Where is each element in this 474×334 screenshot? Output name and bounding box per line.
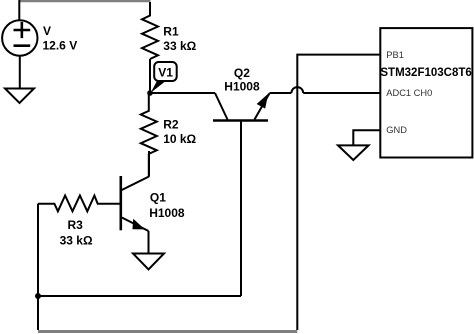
ground (below Q1) <box>133 254 164 270</box>
resistor R1 <box>142 2 158 59</box>
ground (below V source) <box>5 89 34 104</box>
wire hop over PB1 line <box>291 87 303 93</box>
wire R1 bottom to node V1 <box>149 59 151 93</box>
label Q1 H1008 <box>149 190 185 220</box>
svg-text:ADC1 CH0: ADC1 CH0 <box>386 88 432 98</box>
wire Q2 emitter to hop <box>270 92 292 94</box>
svg-text:33 kΩ: 33 kΩ <box>163 39 196 53</box>
node V1 callout <box>151 62 177 93</box>
wire hop to ADC1 CH0 pin <box>303 92 380 94</box>
svg-text:12.6 V: 12.6 V <box>43 38 78 52</box>
wire GND pin lead <box>353 130 380 145</box>
svg-text:33 kΩ: 33 kΩ <box>60 233 93 247</box>
wire V source top lead <box>18 0 20 21</box>
wire top rail (gray, V+ to R1) <box>19 0 151 2</box>
wire node V1 to Q2 collector <box>150 92 215 94</box>
svg-text:GND: GND <box>386 125 407 135</box>
svg-text:R2: R2 <box>163 118 179 132</box>
svg-text:R1: R1 <box>163 24 179 38</box>
svg-text:V: V <box>43 24 51 38</box>
resistor R2 <box>141 93 157 154</box>
svg-text:PB1: PB1 <box>386 50 404 60</box>
label V 12.6 V <box>43 24 78 52</box>
label R1 33 kOhm <box>163 24 196 53</box>
svg-text:V1: V1 <box>158 65 173 79</box>
node dot V1 <box>147 90 153 96</box>
wire R2 bottom to Q1 collector <box>148 154 150 177</box>
wire Q1 emitter lead <box>148 231 150 254</box>
svg-text:10 kΩ: 10 kΩ <box>163 132 196 146</box>
svg-text:STM32F103C8T6: STM32F103C8T6 <box>380 67 471 79</box>
label R3 33 kOhm <box>60 218 93 247</box>
ground (at IC GND pin) <box>338 145 369 160</box>
wire PB1 pin to bottom <box>297 55 380 330</box>
transistor Q1 <box>121 176 149 231</box>
wire V source bottom lead <box>19 56 21 89</box>
resistor R3 <box>38 196 120 212</box>
svg-text:Q1: Q1 <box>150 190 166 204</box>
IC U1 STM32F103C8T6 <box>380 28 472 157</box>
wire bottom rail (gray) <box>38 330 297 333</box>
svg-text:R3: R3 <box>68 218 84 232</box>
junction dot <box>35 293 41 299</box>
svg-text:Q2: Q2 <box>234 66 250 80</box>
wire junction to Q2 base <box>38 295 241 297</box>
transistor Q2 <box>213 93 270 296</box>
svg-text:H1008: H1008 <box>149 206 185 220</box>
voltage source V <box>2 20 37 55</box>
svg-text:H1008: H1008 <box>224 80 260 94</box>
label Q2 H1008 <box>224 66 260 94</box>
wire left riser R3 to bottom rail <box>37 204 39 330</box>
wire Q1 collector lead <box>148 151 150 177</box>
label R2 10 kOhm <box>163 118 196 146</box>
